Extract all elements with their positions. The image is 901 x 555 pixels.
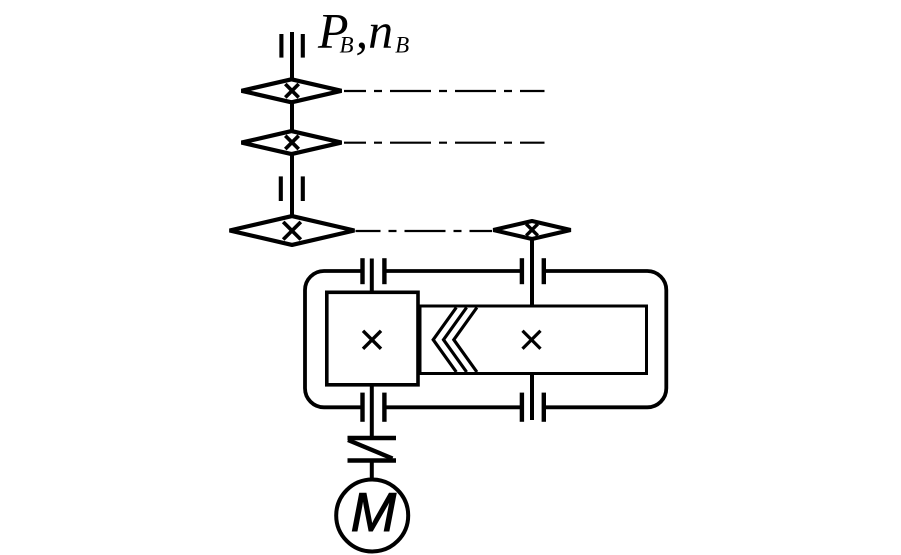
- sprocket 2 (lower chain wheel of first stage): [242, 131, 342, 154]
- bearing pair on output shaft (between sprockets): [281, 176, 303, 201]
- label P_B, n_B: [317, 3, 409, 59]
- herringbone teeth marks (chevrons): [433, 308, 477, 373]
- high-speed shaft (left vertical, to motor): [370, 259, 374, 482]
- elastic coupling: [348, 438, 397, 461]
- sprocket 4 (small chain wheel on gearbox shaft): [493, 221, 570, 239]
- sprocket 3 (large chain wheel, second stage): [230, 216, 355, 245]
- sprocket 1 (upper chain wheel): [242, 79, 342, 102]
- bearing pair, gearbox top right: [522, 258, 544, 284]
- gear wheel (long block on low-speed shaft): [420, 306, 647, 374]
- gearbox input chain shaft (vertical, right): [530, 240, 534, 307]
- x mark of gear wheel: [523, 331, 541, 349]
- pinion gear (left block): [327, 292, 418, 385]
- svg-text:M: M: [351, 482, 397, 543]
- bearing pair, gearbox bottom left: [363, 393, 385, 422]
- bearing pair, gearbox bottom right: [522, 393, 544, 422]
- output shaft (vertical): [290, 32, 294, 226]
- axis line of chain drive to gearbox shaft (dash-dot): [356, 230, 493, 232]
- axis line of upper sprocket pair (dash-dot): [344, 90, 545, 92]
- gearbox housing: [305, 266, 666, 412]
- motor M: [336, 480, 408, 552]
- bearing pair on output shaft (top): [281, 34, 302, 58]
- low-speed gearbox shaft (right vertical, bottom stub): [530, 373, 534, 420]
- bearing pair, gearbox top left: [363, 258, 385, 284]
- axis line of second sprocket (dash-dot): [344, 142, 545, 144]
